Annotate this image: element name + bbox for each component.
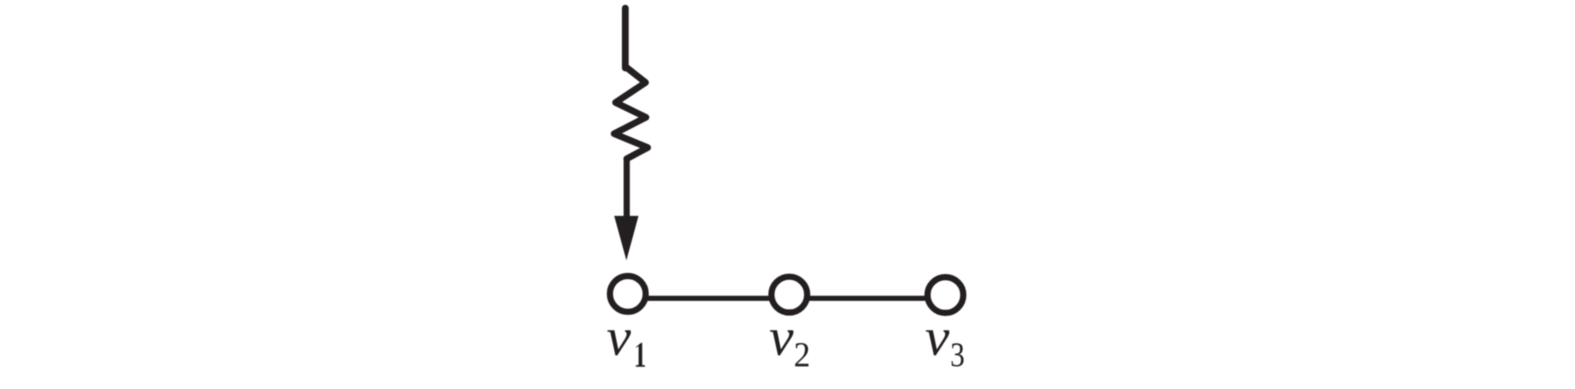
wire: v2 to v3	[789, 296, 945, 301]
node v2	[771, 277, 807, 313]
wire: v1 to v2	[628, 296, 790, 301]
current arrow into node v1	[614, 216, 638, 261]
node v3	[928, 277, 964, 313]
wire: resistor bottom lead / arrow shaft	[624, 158, 630, 222]
resistor (zigzag)	[614, 67, 648, 159]
label v2	[770, 330, 794, 355]
label v1	[607, 330, 631, 355]
wire: top lead into resistor	[622, 8, 629, 68]
node v1	[610, 276, 646, 312]
label v3	[926, 330, 950, 355]
